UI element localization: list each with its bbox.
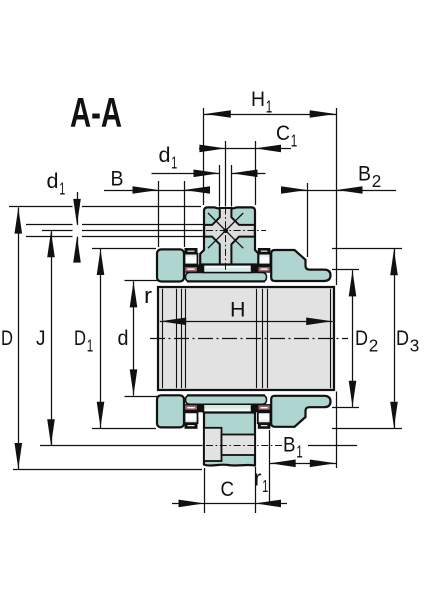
cross-drilled hole diagonal bbox=[208, 213, 243, 248]
svg-text:1: 1 bbox=[291, 130, 298, 150]
H1 dimension line bbox=[204, 114, 337, 116]
d1 left extension (top dim) bbox=[219, 165, 221, 207]
svg-text:2: 2 bbox=[369, 335, 379, 355]
D2 extension line top bbox=[332, 269, 359, 271]
housing washer left wall (outer ring top-left section) bbox=[157, 249, 184, 281]
horizontal hole axis bbox=[206, 230, 266, 232]
svg-text:J: J bbox=[36, 327, 46, 350]
shaft edge projection line bbox=[181, 289, 183, 388]
shaft edge projection line bbox=[185, 289, 187, 388]
H1 left extension bbox=[203, 108, 205, 205]
svg-text:H: H bbox=[251, 88, 265, 111]
shaft locating washer flange with lubrication hole (top centre piece) bbox=[200, 207, 258, 264]
housing washer right block with flange ledge (outer ring top-right section) bbox=[271, 250, 330, 281]
main centreline axis bbox=[150, 338, 348, 340]
C dimension line bbox=[172, 503, 205, 505]
shaft edge projection line bbox=[262, 289, 264, 388]
svg-text:d: d bbox=[118, 327, 129, 350]
D1 extension line bottom bbox=[92, 428, 156, 430]
vertical hole axis bbox=[225, 208, 227, 273]
B1 dimension line bbox=[269, 463, 336, 465]
fixing hole axis bbox=[206, 445, 282, 447]
lube hole bottom wall extension bbox=[26, 236, 203, 238]
d dimension line bbox=[133, 281, 135, 395]
svg-text:1: 1 bbox=[171, 152, 177, 172]
J extension line bottom bbox=[40, 445, 203, 447]
svg-text:1: 1 bbox=[59, 178, 65, 198]
D1 dimension line bbox=[100, 249, 102, 428]
axial cylindrical roller left: cage cap bbox=[185, 248, 198, 254]
C right extension bbox=[255, 467, 257, 513]
shaft edge projection line bbox=[256, 289, 258, 388]
D2 dimension line bbox=[352, 270, 354, 407]
svg-text:D: D bbox=[74, 327, 86, 350]
d1 left dimension line lower bbox=[77, 237, 79, 253]
fixing hole counterbore (grey, left) bbox=[204, 428, 222, 461]
d extension line bottom bbox=[125, 396, 158, 398]
mirrored bottom band (outer ring bottom sections, rollers, cage) bbox=[157, 395, 331, 429]
C1 left extension (hole axis) bbox=[225, 141, 227, 207]
D3 dimension line bbox=[394, 249, 396, 428]
d1 left dimension line upper bbox=[77, 192, 79, 225]
svg-text:C: C bbox=[276, 122, 290, 145]
B left extension bbox=[158, 181, 160, 247]
svg-text:1: 1 bbox=[262, 476, 268, 496]
needle roller cage bar bbox=[198, 265, 204, 273]
svg-text:A-A: A-A bbox=[70, 89, 122, 136]
fixing hole axis extension right bbox=[308, 445, 357, 447]
shaft edge projection line bbox=[330, 289, 332, 388]
svg-text:D: D bbox=[1, 327, 13, 350]
B2 left extension bbox=[307, 183, 309, 257]
svg-text:D: D bbox=[355, 327, 368, 350]
svg-text:B: B bbox=[358, 163, 371, 186]
axial cylindrical roller left: lower cage bar bbox=[185, 265, 198, 267]
D3 extension line top bbox=[332, 248, 402, 250]
C1 right extension bbox=[255, 141, 257, 205]
H dimension line bbox=[160, 321, 333, 323]
svg-text:H: H bbox=[230, 299, 246, 322]
axial cylindrical roller left: roller body bbox=[185, 254, 198, 265]
line break around d1 arrow bbox=[73, 199, 83, 253]
svg-text:C: C bbox=[221, 478, 235, 501]
d extension line top bbox=[125, 280, 158, 282]
svg-text:1: 1 bbox=[296, 442, 303, 462]
D extension line bottom bbox=[13, 469, 202, 471]
shaft edge projection line bbox=[176, 289, 178, 388]
svg-text:3: 3 bbox=[410, 335, 420, 355]
B1 right extension lower bbox=[336, 392, 338, 469]
axial cylindrical roller right: cage cap bbox=[258, 248, 271, 254]
B1 left extension bbox=[269, 430, 271, 503]
D3 extension line bottom bbox=[332, 428, 402, 430]
svg-text:2: 2 bbox=[372, 171, 382, 191]
needle bush strip (thin sleeve under rollers) bbox=[186, 273, 267, 282]
svg-text:1: 1 bbox=[266, 96, 273, 116]
svg-text:B: B bbox=[283, 433, 296, 456]
needle roller left (maroon) bbox=[185, 267, 198, 273]
H1/B2 right extension upper bbox=[336, 108, 338, 285]
D2 extension line bottom bbox=[332, 407, 359, 409]
shaft edge projection line bbox=[162, 289, 164, 388]
axial cylindrical roller right: lower cage bar bbox=[258, 265, 271, 267]
cross-drilled hole diagonal bbox=[208, 213, 243, 248]
B2 dimension line bbox=[282, 190, 307, 192]
lube hole top wall extension bbox=[26, 224, 203, 226]
svg-text:d: d bbox=[159, 144, 171, 167]
svg-text:1: 1 bbox=[87, 335, 94, 355]
d1 top dimension line bbox=[152, 173, 220, 175]
B dimension line bbox=[104, 190, 159, 192]
hole crossing centre dot bbox=[223, 228, 228, 233]
svg-text:D: D bbox=[396, 327, 409, 350]
D dimension line bbox=[18, 207, 20, 469]
bottom flange lug with fixing hole (broken-off section) bbox=[204, 413, 255, 466]
axial cylindrical roller right: roller body bbox=[258, 254, 271, 265]
d1 right extension (top dim) bbox=[231, 165, 233, 207]
svg-text:r: r bbox=[254, 466, 262, 491]
svg-text:B: B bbox=[111, 168, 124, 191]
fixing hole (grey, right) bbox=[222, 435, 256, 456]
shaft edge projection line bbox=[267, 289, 269, 388]
svg-text:d: d bbox=[47, 170, 59, 193]
C left extension bbox=[204, 468, 206, 513]
lubrication hole cross section (grey plus shape) bbox=[204, 208, 255, 264]
needle roller right (maroon) bbox=[258, 267, 271, 273]
D extension line top bbox=[9, 206, 201, 208]
D1 extension line top bbox=[92, 248, 156, 250]
shaft (section, bore d, width H) bbox=[158, 287, 334, 390]
J extension line top bbox=[42, 230, 203, 232]
J dimension line bbox=[51, 231, 53, 445]
C1 dimension line bbox=[199, 148, 255, 150]
svg-text:r: r bbox=[144, 283, 152, 308]
B right extension bbox=[184, 181, 186, 247]
